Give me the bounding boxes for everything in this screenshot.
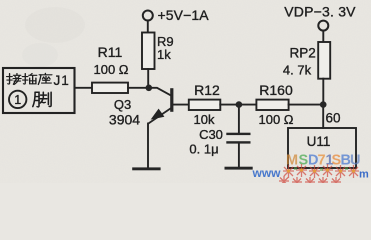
resistor R160 [256,100,288,110]
svg-text:100 Ω: 100 Ω [93,62,128,77]
wire VDP to RP2 [322,31,324,43]
svg-text:J1: J1 [54,73,70,88]
node A junction dot [146,85,153,92]
IC U11 box [288,128,356,168]
Q3 emitter wire [148,108,171,124]
svg-text:100 Ω: 100 Ω [258,112,293,127]
ground (Q3 emitter) [132,167,160,170]
svg-text:1: 1 [14,93,21,107]
svg-text:www: www [252,166,282,180]
watermark red ornament glyphs bottom row [279,176,341,188]
resistor R9 [142,33,155,70]
watermark www line [252,166,370,181]
+5V-1A terminal [143,11,153,21]
wire RP2 to node C [322,79,324,105]
watermark red ornament glyphs row [283,164,359,178]
svg-text:3904: 3904 [109,111,140,127]
svg-text:1k: 1k [157,47,171,62]
svg-text:S: S [299,153,309,169]
svg-text:RP2: RP2 [289,45,315,60]
svg-text:U11: U11 [307,134,331,149]
svg-text:Q3: Q3 [114,97,131,112]
svg-text:60: 60 [325,111,340,126]
svg-text:R12: R12 [194,82,220,98]
watermark green accents [294,167,348,171]
wire R160 to node C [289,104,324,106]
watermark letters MSD71SBU [286,153,360,169]
wire Q3 emitter to ground [147,124,149,168]
wire node B to R160 [239,104,257,106]
wire Q3 base to R12 [173,104,189,106]
node B junction dot [236,101,243,108]
watermark yellow accents [287,168,355,172]
svg-text:U: U [350,153,360,169]
Q3 emitter arrow [151,109,165,120]
resistor R12 [189,100,221,110]
char jie [7,74,22,85]
node C junction dot [320,101,327,108]
wire node B down to C30 [238,105,240,134]
transistor Q3 [148,88,173,124]
svg-text:10k: 10k [194,112,215,127]
wire node A to Q3 collector [149,88,171,96]
char zuo [38,73,52,84]
faint scan smudge top-left [22,7,85,67]
VDP-3.3V terminal [318,21,328,31]
svg-text:7: 7 [318,153,326,169]
svg-text:C30: C30 [199,127,223,142]
wire R11 to node A [128,87,149,89]
capacitor C30 [226,133,250,144]
svg-text:R160: R160 [259,82,293,98]
wire J1 to R11 [75,87,93,89]
resistor RP2 [318,42,330,79]
wire R12 to node B [220,104,239,106]
svg-text:VDP−3. 3V: VDP−3. 3V [284,3,356,19]
Q3 base bar [170,88,173,112]
connector box J1 [3,68,75,113]
J1 box text: jiao (drawn strokes) [33,92,51,107]
wire node C to U11 pin 60 [322,105,324,128]
wire C30 to ground [238,143,240,168]
svg-text:m: m [359,169,369,181]
ground (C30) [225,167,253,170]
svg-text:0. 1μ: 0. 1μ [189,142,218,157]
svg-text:M: M [286,153,298,169]
svg-text:+5V−1A: +5V−1A [158,7,210,23]
wire +5V to R9 [147,20,149,32]
char cha [22,74,37,85]
wire R9 to node A [147,69,149,88]
J1 box text: 接插座J1 (drawn strokes) [7,73,52,84]
svg-text:4. 7k: 4. 7k [283,63,312,78]
pin 1 circled [9,91,26,108]
resistor R11 [92,83,128,93]
svg-text:R11: R11 [98,44,123,60]
